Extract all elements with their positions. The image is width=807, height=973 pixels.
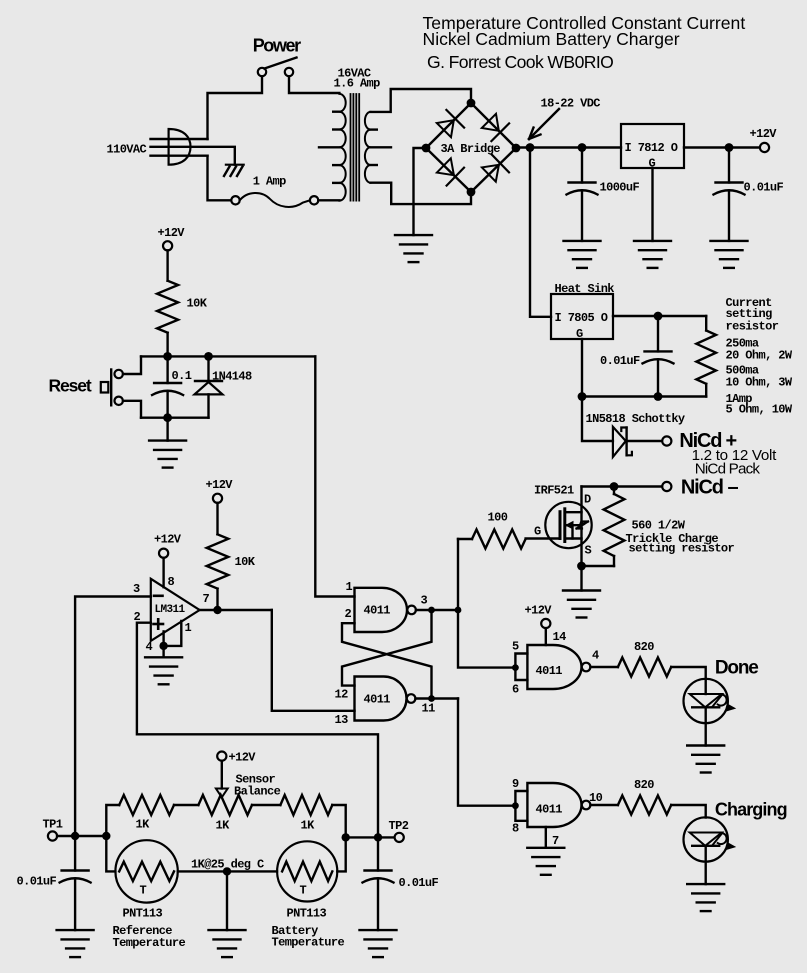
node bottom rail C3 — [654, 392, 663, 401]
node bottom rail G pin — [578, 392, 587, 401]
terminal NiCd- — [662, 482, 671, 491]
wire D5 cathode to NiCd+ terminal — [627, 440, 662, 442]
op-amp U3 LM311 triangle — [151, 579, 200, 641]
svg-text:4011: 4011 — [364, 604, 391, 618]
svg-text:resistor: resistor — [726, 320, 779, 334]
svg-text:NiCd Pack: NiCd Pack — [695, 461, 761, 478]
svg-text:LM311: LM311 — [155, 604, 186, 616]
node bridge AC2 — [467, 188, 476, 197]
LED D8 Charging — [684, 817, 728, 861]
svg-text:1000uF: 1000uF — [600, 181, 640, 195]
plug P1 neutral prong wire — [151, 147, 235, 165]
svg-text:820: 820 — [634, 778, 654, 792]
node 3 outer — [455, 607, 462, 614]
capacitor C4 0.1 — [172, 369, 192, 383]
wire node 3 up to R2 and down to Done gate — [457, 539, 459, 610]
transformer T1 primary center tap stub — [319, 146, 339, 148]
wire middle node ground — [226, 871, 228, 930]
ground below thermistor midpoint — [209, 930, 246, 957]
svg-text:1: 1 — [185, 621, 192, 635]
svg-text:14: 14 — [553, 630, 567, 644]
gate U4c 4011 Done — [512, 639, 599, 696]
svg-text:6: 6 — [512, 682, 519, 696]
transistor Q1 source stub — [565, 537, 582, 539]
svg-text:3: 3 — [421, 594, 428, 608]
transistor Q1 IRF521 drain lead — [580, 487, 582, 567]
svg-text:1K@25 deg C: 1K@25 deg C — [191, 858, 264, 872]
LED D7 Done — [705, 679, 707, 694]
ground below C6 — [360, 930, 397, 957]
wire TP1 rail — [57, 835, 106, 837]
svg-text:10K: 10K — [235, 555, 256, 569]
wire 7805 G pin to bottom rail — [581, 339, 583, 397]
svg-text:TP1: TP1 — [43, 818, 63, 832]
node bridge minus — [422, 144, 431, 153]
ground below reset — [166, 418, 168, 441]
svg-text:NiCd: NiCd — [681, 477, 723, 499]
wire reset node rail — [141, 355, 315, 357]
transistor Q1 channel bar — [563, 509, 566, 542]
wire R10 to TP2 rail — [332, 805, 345, 837]
svg-text:PNT113: PNT113 — [287, 907, 327, 921]
node U4c input — [512, 664, 519, 671]
transistor Q1 body stub with arrow — [565, 524, 582, 526]
terminal +12V top right — [760, 143, 769, 152]
resistor R1 current setting resistor — [705, 316, 707, 331]
svg-text:4: 4 — [146, 640, 153, 654]
svg-text:0.01uF: 0.01uF — [600, 354, 640, 368]
svg-text:Reset: Reset — [49, 376, 92, 396]
wire 7812 output to +12V terminal — [684, 146, 760, 148]
wire cross couple U4b out to U4a pin 2 — [342, 623, 432, 698]
svg-text:T: T — [300, 884, 307, 898]
bridge diode D1 (minus to AC1) — [437, 120, 454, 137]
node TP1 cap junction — [71, 832, 79, 840]
label Charging — [715, 800, 787, 820]
svg-text:20 Ohm, 2W: 20 Ohm, 2W — [726, 349, 793, 363]
ground below C1 — [564, 241, 601, 268]
svg-text:5 Ohm, 10W: 5 Ohm, 10W — [726, 403, 793, 417]
svg-text:18-22 VDC: 18-22 VDC — [541, 97, 601, 111]
bridge diode D2 (AC1 to plus) — [482, 114, 499, 131]
bridge rectifier BR1 arms — [426, 103, 471, 148]
label 18-22 VDC with arrow — [541, 97, 601, 111]
capacitor C1 1000uF — [581, 152, 583, 183]
node TP2 cap junction — [374, 833, 382, 841]
wire U4c input bracket — [515, 654, 527, 681]
transistor Q1 IRF521 body circle — [545, 502, 591, 548]
transistor Q1 gate bar — [559, 512, 562, 539]
plug P1 hot prong wire — [151, 138, 208, 140]
wire cross couple U4a out to U4b pin 12 — [342, 610, 432, 686]
resistor R10 1K right — [301, 819, 316, 833]
wire LM311 pin 1 to pin 4 — [164, 621, 182, 646]
wire reset switch top to rail — [123, 356, 141, 374]
plug P1 ground prong wire — [151, 154, 208, 156]
capacitor C2 0.01uF — [728, 152, 730, 183]
ground below 7812 — [634, 241, 671, 268]
wire plug hot down to fuse — [208, 156, 232, 201]
svg-text:G: G — [534, 525, 541, 539]
node bridge plus — [512, 144, 521, 153]
svg-text:setting resistor: setting resistor — [629, 542, 735, 556]
node 560 top junction — [610, 482, 619, 491]
op-amp U3 plus marker — [154, 623, 164, 626]
wire reset bottom rail — [141, 417, 209, 419]
svg-text:7: 7 — [203, 592, 210, 606]
resistor R7 820 Charging — [634, 778, 654, 792]
ground below bridge — [395, 235, 432, 262]
resistor R2 100 gate resistor — [488, 511, 508, 525]
switch S2 Reset pushbutton — [49, 376, 92, 396]
transformer T1 secondary center tap stub — [371, 146, 392, 148]
fuse F1 — [231, 196, 239, 204]
resistor R3 560 trickle charge — [626, 519, 735, 556]
node source junction — [577, 562, 586, 571]
node 11 — [428, 695, 435, 702]
svg-text:Nickel Cadmium Battery Charger: Nickel Cadmium Battery Charger — [423, 29, 680, 49]
svg-text:+12V: +12V — [229, 751, 257, 765]
ground below D8 — [687, 884, 724, 911]
resistor R4 10K reset pullup — [166, 250, 168, 280]
wire 560 bottom to source node — [582, 565, 615, 567]
capacitor C6 0.01uF TP2 — [399, 876, 439, 890]
label Done — [715, 658, 758, 679]
wire 7805 output to current setting resistor — [613, 315, 706, 317]
svg-text:0.01uF: 0.01uF — [399, 876, 439, 890]
node reset rail right — [204, 352, 213, 361]
transistor Q1 internal body zener diode — [577, 522, 589, 529]
svg-text:TP2: TP2 — [389, 819, 409, 833]
node TP2 left — [342, 833, 350, 841]
svg-text:1K: 1K — [216, 819, 231, 833]
svg-text:10 Ohm, 3W: 10 Ohm, 3W — [726, 376, 793, 390]
thermistor TH1 PNT113 reference — [113, 884, 186, 951]
svg-text:4011: 4011 — [536, 664, 563, 678]
op-amp U3 minus marker — [154, 594, 163, 597]
capacitor C5 0.01uF TP1 — [17, 875, 57, 889]
svg-text:1: 1 — [346, 580, 353, 594]
svg-text:D: D — [584, 493, 591, 507]
label current setting resistor values — [726, 296, 793, 417]
svg-text:110VAC: 110VAC — [107, 143, 147, 157]
wire bridge minus to ground — [414, 148, 422, 235]
terminal TP2 — [395, 833, 404, 842]
resistor R6 820 Done — [634, 640, 654, 654]
svg-text:Power: Power — [253, 36, 301, 56]
wire pot to R10 — [252, 804, 280, 806]
thermistor TH2 PNT113 battery — [272, 884, 345, 950]
node LM311 pin4 — [159, 642, 167, 650]
wire fuse to transformer primary bottom — [318, 199, 339, 201]
wire 7812 ground pin — [651, 168, 653, 241]
node reset rail left — [163, 352, 172, 361]
chassis ground at plug — [226, 164, 244, 166]
wire LM311 pin 3 input from TP1 — [75, 597, 151, 837]
svg-text:Done: Done — [715, 658, 758, 679]
ground below C5 — [57, 930, 94, 957]
diode D6 1N4148 — [212, 370, 252, 384]
transistor Q1 drain stub — [565, 511, 582, 513]
terminal +12V 4011 pin 14 — [541, 619, 550, 628]
svg-text:IRF521: IRF521 — [534, 484, 574, 498]
svg-text:I 7812 O: I 7812 O — [625, 141, 678, 155]
svg-text:11: 11 — [422, 702, 436, 716]
regulator U1 7812 box — [621, 124, 684, 168]
svg-text:PNT113: PNT113 — [123, 907, 163, 921]
svg-text:100: 100 — [488, 511, 508, 525]
node 1000uF junction — [578, 143, 587, 152]
wire secondary top to bridge AC1 — [371, 89, 472, 112]
wire switch left to plug hot — [208, 76, 263, 139]
node DC rail junction after bridge — [526, 143, 535, 152]
transformer T1 16VAC 1.6 Amp labels — [334, 67, 381, 91]
switch S1 power switch — [258, 68, 266, 76]
svg-text:5: 5 — [512, 639, 519, 653]
wire LM311 pin 2 input from TP2 — [137, 623, 378, 838]
svg-text:4011: 4011 — [364, 693, 391, 707]
pot wiper arrow — [216, 789, 228, 798]
gate U4b 4011 lower latch — [355, 677, 407, 721]
wire TP2 rail — [346, 836, 395, 838]
svg-text:+12V: +12V — [750, 127, 778, 141]
wire bottom rail of current source — [582, 395, 706, 397]
resistor R5 10K LM311 pullup — [213, 494, 222, 503]
node 3 inner — [428, 607, 435, 614]
transformer T1 secondary winding — [365, 112, 371, 183]
svg-text:7: 7 — [552, 834, 559, 848]
svg-text:+12V: +12V — [158, 226, 186, 240]
wire TH2 right lead up to TP2 node — [337, 837, 345, 871]
svg-text:13: 13 — [335, 713, 349, 727]
node 7805 out / C3 junction — [654, 312, 663, 321]
node TP1 branch junction — [102, 832, 110, 840]
ground below U4d pin 7 — [527, 848, 564, 875]
bridge diode D4 (AC2 to plus) — [482, 165, 499, 182]
wire pin 14 supply — [545, 628, 547, 645]
wire reset node to latch pin 1 — [315, 356, 354, 596]
wire node 11 down to Charging gate — [458, 699, 515, 806]
wire reset switch bottom to cap rail — [123, 401, 141, 418]
node reset bottom rail — [163, 413, 172, 422]
svg-text:3: 3 — [133, 582, 140, 596]
svg-text:–: – — [728, 477, 739, 499]
capacitor C3 0.01uF across R1 — [657, 320, 659, 351]
svg-text:4: 4 — [592, 649, 599, 663]
diode D5 1N5818 Schottky — [586, 412, 685, 426]
svg-text:2: 2 — [345, 607, 352, 621]
ground below D7 — [687, 746, 724, 773]
svg-text:I 7805 O: I 7805 O — [555, 311, 608, 325]
svg-text:Temperature: Temperature — [272, 936, 345, 950]
terminal +12V reset pullup — [163, 241, 172, 250]
svg-text:8: 8 — [512, 822, 519, 836]
svg-text:Charging: Charging — [715, 800, 787, 820]
wire U4b output to node 11 — [415, 697, 458, 699]
wire LED D7 to ground — [705, 707, 707, 745]
gate U4d 4011 Charging — [512, 777, 603, 848]
wire LM311 pin 8 supply — [162, 558, 164, 587]
svg-text:0.01uF: 0.01uF — [17, 875, 57, 889]
wire U4d input bracket — [515, 791, 527, 821]
svg-text:1N5818 Schottky: 1N5818 Schottky — [586, 412, 685, 426]
ground below Q1 source — [580, 566, 582, 591]
wire DC rail down to 7805 input — [530, 152, 551, 317]
switch S1 Power label — [253, 36, 301, 56]
wire switch right to transformer primary top — [289, 76, 339, 93]
wire U4a output to node 3 — [416, 609, 458, 611]
plug P1 110VAC label — [107, 143, 147, 157]
transformer T1 core — [350, 94, 352, 201]
wire bottom rail to D5 anode — [582, 397, 613, 442]
wire secondary bottom to bridge AC2 — [371, 183, 472, 204]
svg-text:0.1: 0.1 — [172, 369, 192, 383]
svg-text:1K: 1K — [136, 818, 151, 832]
svg-text:4011: 4011 — [536, 803, 563, 817]
svg-text:+12V: +12V — [206, 478, 234, 492]
fuse F1 1 Amp label — [253, 175, 286, 189]
wire LM311 output to latch pin 13 — [200, 609, 272, 611]
wire U4d pin 7 ground — [545, 827, 547, 848]
wire branch up to R8 — [106, 805, 119, 836]
resistor R8 1K left — [136, 818, 151, 832]
transformer T1 primary winding — [339, 94, 345, 201]
svg-text:9: 9 — [512, 777, 519, 791]
svg-text:8: 8 — [168, 575, 175, 589]
svg-text:Balance: Balance — [234, 785, 281, 799]
node U4d input — [512, 802, 519, 809]
wire wiper +12V — [221, 761, 223, 789]
svg-text:T: T — [140, 884, 147, 898]
wire DC rail bridge to 7812 — [520, 146, 621, 148]
svg-text:+12V: +12V — [525, 604, 553, 618]
node thermistor midpoint — [223, 867, 231, 875]
terminal +12V sensor balance — [217, 752, 226, 761]
svg-text:12: 12 — [335, 688, 349, 702]
svg-text:0.01uF: 0.01uF — [744, 181, 784, 195]
potentiometer R9 1K Sensor Balance — [216, 773, 281, 833]
node 0.01uF junction — [725, 143, 734, 152]
svg-text:820: 820 — [634, 640, 654, 654]
svg-text:Temperature: Temperature — [113, 936, 186, 950]
svg-text:1K: 1K — [301, 819, 316, 833]
svg-text:1.6 Amp: 1.6 Amp — [334, 77, 381, 91]
svg-text:S: S — [585, 544, 592, 558]
svg-text:10K: 10K — [187, 297, 208, 311]
bridge rectifier BR1 3A Bridge label — [441, 142, 501, 156]
terminal NiCd+ — [662, 436, 671, 445]
node bridge AC1 — [467, 99, 476, 108]
svg-text:+12V: +12V — [154, 533, 182, 547]
terminal TP1 — [48, 831, 57, 840]
svg-text:1 Amp: 1 Amp — [253, 175, 286, 189]
wire NiCd- to drain node — [582, 485, 663, 487]
title text — [423, 13, 746, 72]
gate U4a 4011 upper latch — [355, 588, 408, 632]
wire LM311 pin 4 ground — [162, 631, 164, 657]
svg-text:560 1/2W: 560 1/2W — [632, 519, 686, 533]
regulator U2 7805 box with Heat Sink label — [555, 282, 615, 296]
node LM311 output — [213, 606, 221, 614]
terminal +12V LM311 supply — [159, 549, 168, 558]
wire LED D8 to ground — [705, 846, 707, 884]
bridge diode D3 (minus to AC2) — [437, 158, 454, 175]
svg-text:G. Forrest Cook WB0RIO: G. Forrest Cook WB0RIO — [427, 52, 613, 72]
ground below LM311 — [145, 657, 182, 684]
wire TH1 to middle ground node — [178, 870, 277, 872]
plug P1 body — [169, 129, 191, 165]
ground below C2 — [711, 241, 748, 268]
